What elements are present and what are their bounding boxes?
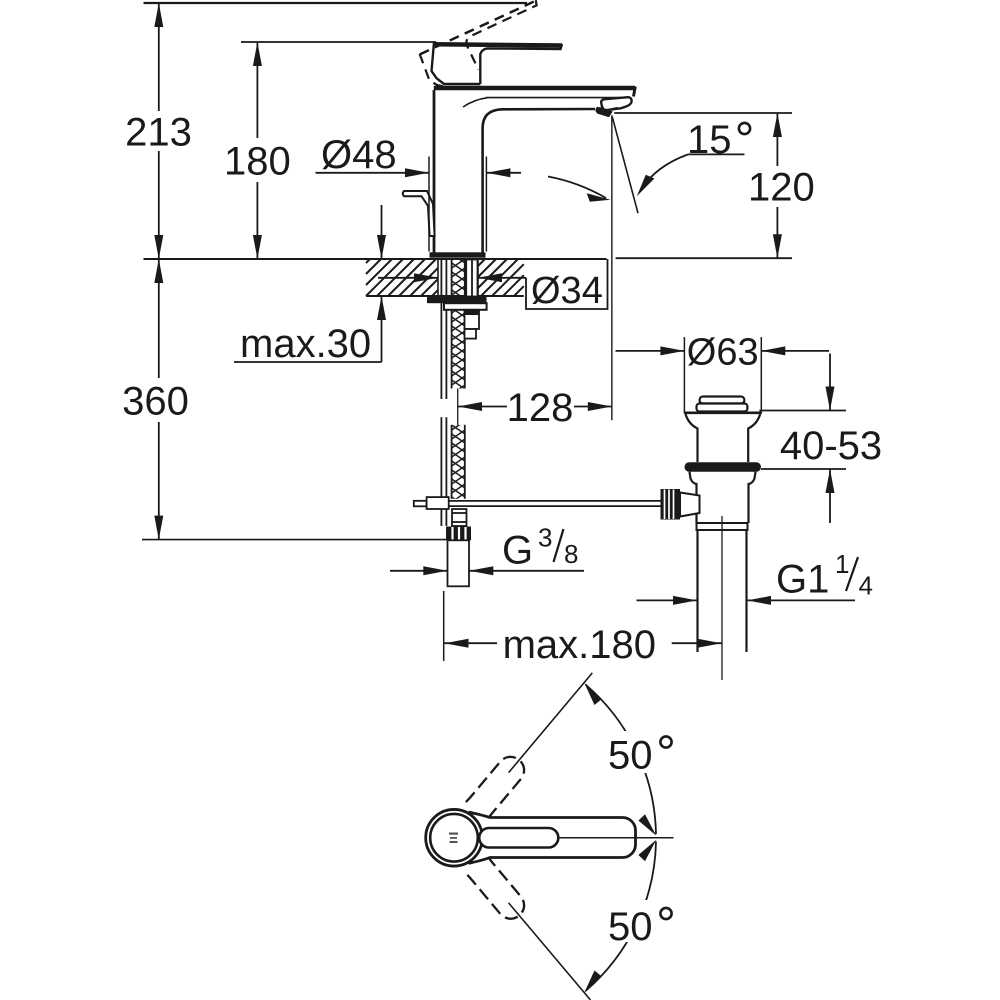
- deck surface line: [144, 258, 607, 260]
- dimension D34: [378, 273, 526, 282]
- dimension max.30: [234, 205, 386, 362]
- 120 top reference line: [614, 112, 792, 114]
- top view: solid handle outline stroke: [469, 812, 636, 863]
- svg-text:Ø34: Ø34: [531, 270, 603, 312]
- drain valve upper body (trumpet neck): [686, 414, 761, 462]
- label 50 deg upper: [602, 731, 680, 778]
- top view: handle ring outer circle: [426, 809, 483, 866]
- top view: handle slot: [479, 828, 558, 848]
- shank fitting below nut: [465, 310, 480, 339]
- top view: 50 deg boundary line upper: [509, 673, 593, 773]
- top view: solid handle outline: [469, 812, 636, 863]
- svg-text:180: 180: [224, 140, 291, 184]
- svg-text:50: 50: [608, 734, 653, 778]
- svg-text:Ø48: Ø48: [321, 133, 397, 177]
- faucet handle raised position (dashed): [417, 0, 553, 92]
- svg-text:128: 128: [507, 386, 574, 430]
- drain valve tailpipe G1 1/4: [698, 530, 747, 652]
- faucet aerator (15 deg tilt): [595, 97, 631, 117]
- label 120: [744, 166, 819, 210]
- hose break axis line: [457, 389, 459, 425]
- supply hose upper section (braided): [452, 260, 465, 389]
- mounting nut below deck: [427, 297, 487, 310]
- 120 bottom reference line: [616, 257, 792, 259]
- drain valve O-ring: [685, 462, 762, 471]
- faucet handle lever (rest position): [432, 43, 563, 85]
- dimension 120: [773, 113, 782, 258]
- dimension G3/8: [390, 566, 584, 575]
- top view: dashed handle rotated up 50 deg: [466, 751, 530, 820]
- faucet body and spout: [434, 87, 636, 253]
- svg-text:G1: G1: [776, 558, 829, 602]
- drain pull rod (vertical, upper): [441, 260, 446, 400]
- 40-53 top reference line: [759, 410, 846, 412]
- dimension G1 1/4: [637, 596, 856, 605]
- dimension 180: [253, 42, 262, 259]
- svg-text:15: 15: [687, 118, 732, 162]
- label G1 1/4: [776, 549, 873, 602]
- lower reference line (360 bottom): [142, 539, 446, 541]
- svg-text:50: 50: [608, 905, 653, 949]
- label 50 deg lower: [602, 900, 680, 949]
- hose end section: [452, 509, 467, 526]
- drain valve knurled adjuster: [661, 489, 681, 520]
- drain linkage joint: [414, 497, 449, 509]
- supply hose lower section (braided): [452, 425, 465, 499]
- top view: tiny logo mark: [449, 833, 458, 844]
- dimension max.180: [445, 639, 722, 648]
- svg-text:Ø63: Ø63: [687, 332, 759, 374]
- svg-text:360: 360: [122, 380, 189, 424]
- svg-text:4: 4: [859, 571, 873, 601]
- label G3/8: [502, 523, 578, 573]
- drain valve bottom collar: [697, 523, 748, 530]
- pull rod knob (left of body): [403, 191, 435, 236]
- faucet base plate: [430, 252, 486, 257]
- svg-text:max.180: max.180: [503, 623, 656, 667]
- label D34 with box: [526, 259, 608, 312]
- 40-53 bottom reference line: [761, 468, 846, 470]
- top view: handle ring inner circle: [430, 814, 478, 862]
- drain valve push button dome: [697, 397, 748, 412]
- max.180 left extension line: [443, 591, 445, 661]
- svg-text:8: 8: [564, 539, 578, 569]
- dimension D63: [616, 337, 830, 414]
- top view: dashed handle rotated down 50 deg: [466, 856, 530, 925]
- svg-text:G: G: [502, 529, 533, 573]
- label 213: [124, 111, 193, 155]
- dimension 213: [154, 3, 163, 259]
- dimension 40-53: [826, 354, 835, 524]
- deck cross-section hatching left of hole: [366, 259, 438, 296]
- label 180: [222, 139, 293, 184]
- 15 deg spray direction line: [612, 117, 638, 214]
- threaded shank right half in deck hole: [466, 260, 477, 297]
- reference line 180 (lever rest height): [241, 41, 436, 43]
- top view: 50 deg boundary line lower: [509, 903, 591, 1000]
- dimension D48: [316, 157, 522, 252]
- svg-text:max.30: max.30: [240, 322, 371, 366]
- deck cross-section hatching right of hole: [478, 259, 524, 296]
- connection nut G3/8: [446, 527, 471, 541]
- spout outlet axis line: [611, 115, 613, 420]
- top view: handle axis line: [558, 837, 674, 839]
- dimension 128: [458, 402, 612, 411]
- label 15 deg with leader: [637, 118, 750, 196]
- top reference line (raised lever height): [144, 2, 528, 4]
- top view: upper 50 deg arc: [584, 683, 656, 836]
- svg-text:3: 3: [538, 523, 552, 553]
- svg-text:1: 1: [835, 549, 849, 579]
- drain pull rod (vertical, lower): [441, 417, 446, 526]
- drain linkage horizontal rod: [449, 501, 661, 506]
- svg-text:120: 120: [748, 166, 815, 210]
- drain valve top flange: [684, 411, 761, 414]
- dimension 360: [154, 259, 163, 540]
- svg-text:213: 213: [125, 111, 192, 155]
- drain valve rod connector: [680, 493, 700, 517]
- drain valve lower body: [690, 472, 756, 523]
- deck bottom line: [366, 295, 524, 297]
- drain valve centerline: [721, 516, 723, 680]
- deck hole edges: [438, 259, 478, 296]
- label 360: [119, 379, 192, 424]
- svg-text:40-53: 40-53: [780, 424, 882, 468]
- top view: lower 50 deg arc: [584, 840, 656, 993]
- G3/8 threaded nipple: [448, 540, 470, 586]
- arc from D48 to spray line: [548, 177, 611, 202]
